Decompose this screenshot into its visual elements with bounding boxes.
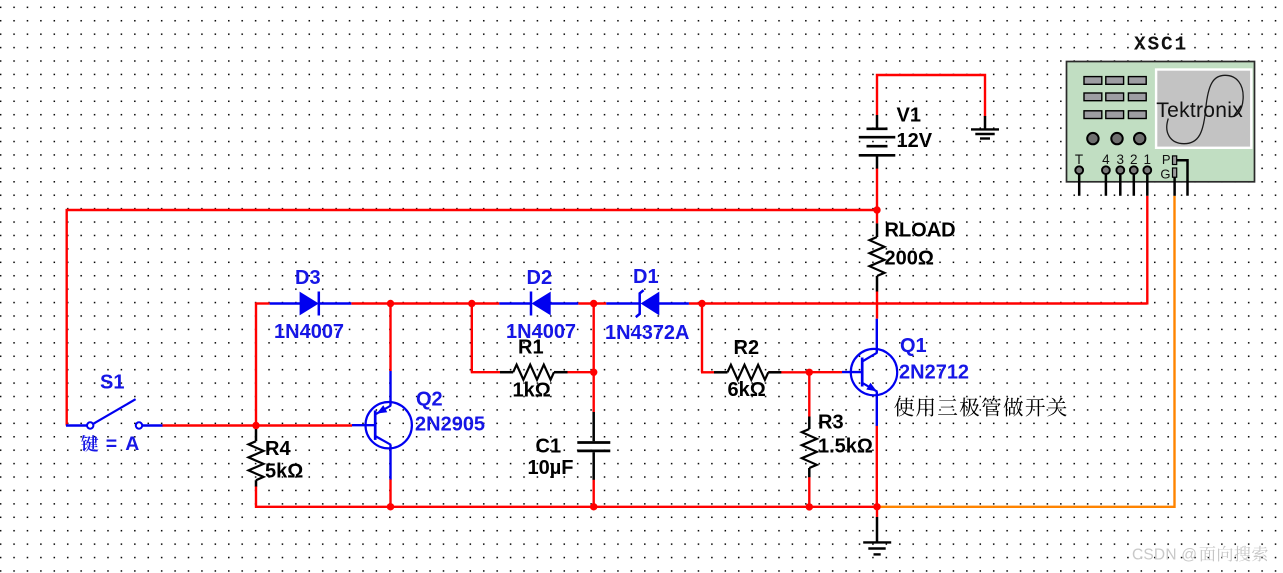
junction node R1 right / C1 top <box>590 369 597 376</box>
wire S1 right blue lead <box>142 424 163 426</box>
svg-text:D3: D3 <box>295 267 321 289</box>
svg-text:1: 1 <box>1144 152 1152 167</box>
junction node main/R1 left <box>468 300 475 307</box>
resistor R2 <box>714 365 781 380</box>
oscilloscope XSC1 body <box>1067 62 1255 182</box>
wire Q1 emitter to ground row <box>876 425 878 506</box>
junction node main/R2 left <box>698 300 705 307</box>
wire Q1 base red lead <box>809 371 842 373</box>
junction node ground / orange probe <box>873 503 880 510</box>
scope pin G <box>1160 166 1176 196</box>
wire S1 left blue lead <box>66 424 87 426</box>
svg-text:R1: R1 <box>518 336 544 358</box>
junction node top V1/RLOAD <box>873 206 880 213</box>
svg-text:S1: S1 <box>100 371 124 393</box>
wire D3 anode lead <box>270 302 300 304</box>
wire Q2 collector to bottom row <box>389 479 391 507</box>
svg-text:V1: V1 <box>897 104 921 126</box>
wire Q2 collector blue lead <box>389 445 391 480</box>
wire Q1 base blue lead <box>842 371 863 373</box>
svg-text:D1: D1 <box>633 266 659 288</box>
wire vertical D3 anode column <box>255 303 257 426</box>
svg-text:2N2712: 2N2712 <box>899 361 969 383</box>
svg-text:Q2: Q2 <box>416 389 443 411</box>
watermark CSDN <box>1132 546 1268 564</box>
wire scope channel 1 vertical <box>1146 196 1148 305</box>
svg-text:1N4007: 1N4007 <box>274 321 344 343</box>
svg-text:C1: C1 <box>536 435 562 457</box>
junction node S1 / R4 <box>252 422 259 429</box>
wire D2 anode lead <box>550 302 578 304</box>
wire R1 right red lead <box>567 371 594 373</box>
wire Q2 emitter blue lead <box>389 371 391 406</box>
svg-text:2: 2 <box>1130 152 1138 167</box>
diode D3 <box>300 292 319 316</box>
scope front-panel buttons 3x3 <box>1084 77 1146 119</box>
svg-text:1kΩ: 1kΩ <box>513 380 551 402</box>
wire bottom ground row <box>255 506 877 508</box>
svg-text:P: P <box>1162 152 1171 167</box>
wire D2 cathode lead <box>499 302 531 304</box>
wire S1 to Q2 base row <box>162 424 352 426</box>
svg-text:R4: R4 <box>265 438 291 460</box>
scope pin 1 <box>1143 152 1151 196</box>
junction node R2 right / R3 / Q1 base <box>806 369 813 376</box>
svg-text:12V: 12V <box>897 130 933 152</box>
wire V1 minus to top node <box>876 168 878 211</box>
junction node D3 cathode / Q2 emitter <box>387 300 394 307</box>
resistor RLOAD <box>870 223 885 291</box>
svg-text:3: 3 <box>1117 152 1125 167</box>
wire R2 left red lead <box>701 371 714 373</box>
resistor R3 <box>802 417 817 478</box>
svg-text:4: 4 <box>1102 152 1110 167</box>
wire top horizontal net from switch to V1 <box>67 209 877 211</box>
label key = A <box>81 433 139 455</box>
zener diode D1 <box>636 290 660 317</box>
wire main row red segment D2 to D1 <box>578 302 606 304</box>
resistor R4 <box>249 426 264 487</box>
wire top node to RLOAD <box>876 209 878 223</box>
svg-text:Tektronix: Tektronix <box>1156 99 1243 122</box>
wire Q2 base blue lead <box>352 424 376 426</box>
wire R1 left vertical <box>471 303 473 373</box>
svg-text:10µF: 10µF <box>528 457 574 479</box>
svg-text:1N4372A: 1N4372A <box>605 322 690 344</box>
scope pin T <box>1075 152 1083 196</box>
svg-text:RLOAD: RLOAD <box>885 220 956 242</box>
annotation: use transistor as switch <box>894 398 1066 417</box>
wire R2 left vertical <box>701 303 703 373</box>
capacitor C1 <box>577 412 610 480</box>
svg-text:5kΩ: 5kΩ <box>265 461 303 483</box>
junction node C1 bottom row <box>590 503 597 510</box>
wire R3 bottom red <box>808 477 810 508</box>
svg-text:2N2905: 2N2905 <box>415 414 485 436</box>
wire Q1 collector blue lead <box>876 319 878 353</box>
svg-text:XSC1: XSC1 <box>1134 34 1188 56</box>
svg-text:1.5kΩ: 1.5kΩ <box>818 436 873 458</box>
diode D2 <box>531 292 551 316</box>
transistor Q1 2N2712 <box>851 349 897 395</box>
resistor R1 <box>500 365 568 380</box>
ground top right <box>971 116 999 139</box>
scope pin P with probe stub <box>1162 152 1188 196</box>
scope pin 4 <box>1102 152 1110 196</box>
wire D1 anode lead <box>659 302 689 304</box>
wire left vertical from top wire to S1 <box>65 209 67 426</box>
scope screen <box>1155 68 1253 149</box>
svg-text:200Ω: 200Ω <box>885 247 934 269</box>
svg-text:G: G <box>1160 166 1170 181</box>
scope pin 2 <box>1130 152 1138 196</box>
wire R2 right red lead <box>768 371 809 373</box>
svg-text:CSDN @: CSDN @ <box>1132 546 1197 563</box>
switch S1 <box>87 399 142 428</box>
wire scope G probe orange <box>877 196 1175 507</box>
wire main row red segment left of D3 <box>255 302 270 304</box>
junction node R3 bottom row <box>806 503 813 510</box>
battery V1 <box>859 115 896 169</box>
svg-text:D2: D2 <box>527 267 553 289</box>
wire R1 left red lead <box>471 371 500 373</box>
scope sine wave <box>1167 75 1243 143</box>
scope knobs <box>1087 133 1145 144</box>
wire R3 top red <box>808 371 810 416</box>
svg-text:R2: R2 <box>734 337 760 359</box>
wire RLOAD bottom to Q1 collector <box>876 291 878 319</box>
transistor Q2 2N2905 <box>366 402 412 448</box>
wire Q1 emitter blue lead <box>876 392 878 426</box>
wire R4 bottom to ground row <box>255 486 257 508</box>
wire main row red segment D1 to scope channel1 <box>689 302 1147 304</box>
wire C1 top column <box>593 303 595 413</box>
junction node Q2 collector / bottom row <box>387 503 394 510</box>
wire Q2 emitter column red <box>389 303 391 372</box>
wire C1 bottom to ground row <box>593 479 595 506</box>
scope pin 3 <box>1116 152 1124 196</box>
svg-text:R3: R3 <box>818 411 844 433</box>
wire D3 cathode lead <box>319 302 351 304</box>
wire D1 cathode lead <box>606 302 639 304</box>
svg-text:Q1: Q1 <box>900 335 927 357</box>
junction node main/C1 column <box>590 300 597 307</box>
wire main row red segment D3 to D2 <box>351 302 499 304</box>
wire V1 plus to ground (top loop) <box>877 75 985 117</box>
svg-text:T: T <box>1075 152 1083 167</box>
ground bottom <box>863 517 891 554</box>
wire ground stub bottom red <box>876 507 878 517</box>
svg-text:6kΩ: 6kΩ <box>728 379 766 401</box>
